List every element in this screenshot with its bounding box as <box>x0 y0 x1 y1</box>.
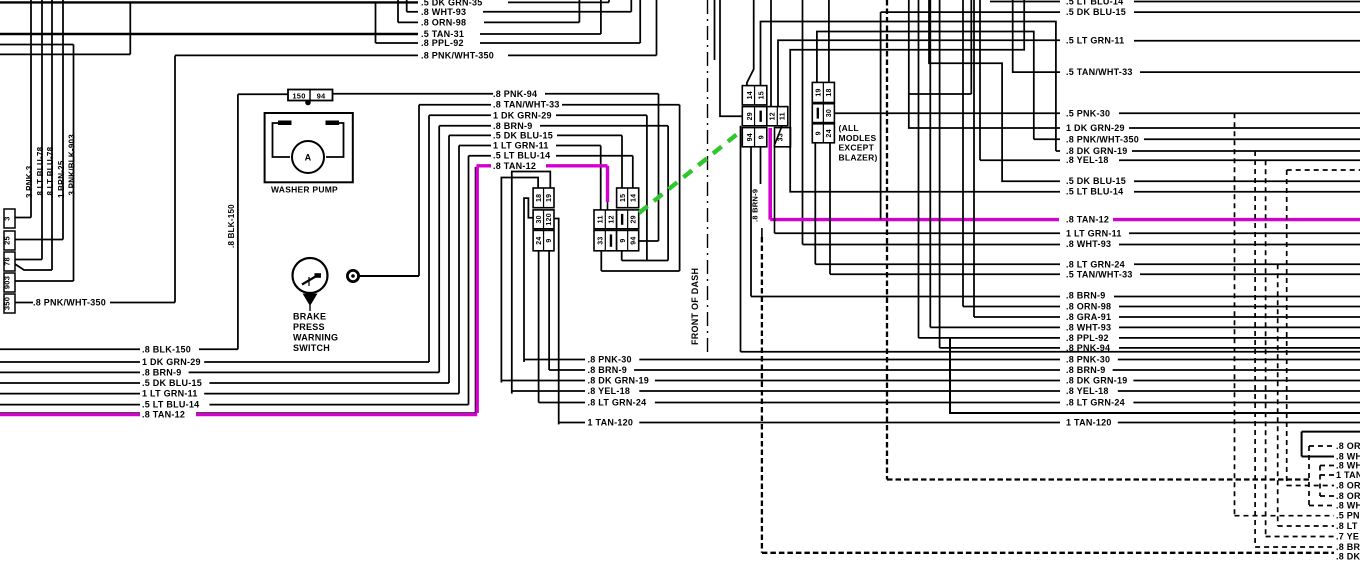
svg-text:9: 9 <box>759 135 766 139</box>
svg-text:29: 29 <box>747 112 754 120</box>
svg-text:MODLES: MODLES <box>839 133 877 143</box>
svg-text:.8 PNK/WHT-350: .8 PNK/WHT-350 <box>1066 134 1139 144</box>
svg-text:WASHER PUMP: WASHER PUMP <box>271 185 338 195</box>
svg-text:.8 BRN-9: .8 BRN-9 <box>493 121 533 131</box>
svg-text:BLAZER): BLAZER) <box>839 152 878 162</box>
svg-text:15: 15 <box>759 91 766 99</box>
svg-text:18: 18 <box>536 194 543 202</box>
svg-text:.8 YEL-18: .8 YEL-18 <box>588 386 631 396</box>
svg-text:.8 WH: .8 WH <box>1336 501 1360 511</box>
svg-text:.8 PNK-94: .8 PNK-94 <box>1066 343 1110 353</box>
svg-text:.5 DK BLU-15: .5 DK BLU-15 <box>1066 7 1126 17</box>
svg-text:.5 LT BLU-14: .5 LT BLU-14 <box>142 400 199 410</box>
svg-text:WARNING: WARNING <box>293 333 338 343</box>
svg-text:.8 PPL-92: .8 PPL-92 <box>421 38 464 48</box>
svg-text:.5 DK BLU-15: .5 DK BLU-15 <box>1066 176 1126 186</box>
svg-text:3: 3 <box>3 216 12 220</box>
svg-text:.8 BR: .8 BR <box>1336 542 1360 552</box>
svg-text:903: 903 <box>3 276 12 289</box>
svg-text:1 DK GRN-29: 1 DK GRN-29 <box>1066 123 1125 133</box>
svg-text:14: 14 <box>631 194 638 202</box>
svg-text:.8 PNK-30: .8 PNK-30 <box>1066 355 1110 365</box>
svg-text:.8 OR: .8 OR <box>1336 491 1360 501</box>
svg-text:12: 12 <box>608 215 615 223</box>
svg-text:9: 9 <box>816 131 823 135</box>
svg-text:.8 YEL-18: .8 YEL-18 <box>1066 386 1109 396</box>
svg-text:.5 TAN/WHT-33: .5 TAN/WHT-33 <box>1066 269 1133 279</box>
svg-text:9: 9 <box>620 239 627 243</box>
svg-text:.8 LT BLU-78: .8 LT BLU-78 <box>36 146 45 198</box>
svg-text:.8 BRN-9: .8 BRN-9 <box>142 367 182 377</box>
svg-text:24: 24 <box>536 236 543 244</box>
svg-text:1 TAN-120: 1 TAN-120 <box>1066 418 1112 428</box>
svg-text:BRAKE: BRAKE <box>293 312 326 322</box>
svg-text:.7 YE: .7 YE <box>1336 532 1359 542</box>
svg-text:25: 25 <box>3 236 12 245</box>
svg-text:.8 DK GRN-19: .8 DK GRN-19 <box>588 376 650 386</box>
svg-text:(ALL: (ALL <box>839 123 859 133</box>
svg-text:15: 15 <box>620 194 627 202</box>
svg-text:.8 BRN-9: .8 BRN-9 <box>588 365 628 375</box>
svg-text:18: 18 <box>826 88 833 96</box>
svg-text:.8 YEL-18: .8 YEL-18 <box>1066 155 1109 165</box>
svg-text:9: 9 <box>546 239 553 243</box>
svg-text:.5 PNK-30: .5 PNK-30 <box>1066 108 1110 118</box>
svg-text:.8 WHT-93: .8 WHT-93 <box>421 7 466 17</box>
svg-text:.5 DK BLU-15: .5 DK BLU-15 <box>493 130 553 140</box>
svg-text:.8 LT GRN-24: .8 LT GRN-24 <box>588 398 647 408</box>
svg-text:PRESS: PRESS <box>293 322 325 332</box>
svg-text:.8 OR: .8 OR <box>1336 441 1360 451</box>
svg-text:11: 11 <box>780 112 787 120</box>
svg-text:.8 WH: .8 WH <box>1336 461 1360 471</box>
svg-text:.8 PNK-30: .8 PNK-30 <box>588 355 632 365</box>
svg-text:.8 ORN-98: .8 ORN-98 <box>421 17 466 27</box>
svg-text:1 TAN: 1 TAN <box>1336 470 1360 480</box>
svg-text:.8 LT GRN-24: .8 LT GRN-24 <box>1066 259 1125 269</box>
svg-text:12: 12 <box>770 112 777 120</box>
svg-text:.8 TAN/WHT-33: .8 TAN/WHT-33 <box>493 100 560 110</box>
svg-text:78: 78 <box>3 257 12 266</box>
svg-text:.8 TAN-12: .8 TAN-12 <box>1066 215 1109 225</box>
svg-text:SWITCH: SWITCH <box>293 343 330 353</box>
svg-text:29: 29 <box>631 215 638 223</box>
svg-text:1 DK GRN-29: 1 DK GRN-29 <box>493 110 552 120</box>
svg-text:30: 30 <box>826 109 833 117</box>
svg-text:350: 350 <box>3 297 12 310</box>
svg-text:.8 BLK-150: .8 BLK-150 <box>142 344 191 354</box>
svg-text:.8 LT GRN-24: .8 LT GRN-24 <box>1066 398 1125 408</box>
svg-text:3 PNK-3: 3 PNK-3 <box>25 165 34 198</box>
svg-text:.5 PN: .5 PN <box>1336 511 1360 521</box>
svg-text:.5 LT BLU-14: .5 LT BLU-14 <box>1066 0 1123 7</box>
svg-text:33: 33 <box>598 236 605 244</box>
svg-text:1 DK GRN-29: 1 DK GRN-29 <box>142 357 201 367</box>
svg-text:1 LT GRN-11: 1 LT GRN-11 <box>1066 228 1122 238</box>
svg-text:1 TAN-120: 1 TAN-120 <box>588 418 634 428</box>
svg-text:.8 LT BLU-78: .8 LT BLU-78 <box>46 146 55 198</box>
svg-text:14: 14 <box>747 91 754 99</box>
svg-text:1 BRN-25: 1 BRN-25 <box>57 160 66 198</box>
svg-text:.8 TAN-12: .8 TAN-12 <box>493 161 536 171</box>
svg-text:120: 120 <box>546 213 553 225</box>
svg-text:94: 94 <box>631 236 638 244</box>
svg-text:150: 150 <box>292 92 305 101</box>
svg-text:.8 BRN-9: .8 BRN-9 <box>1066 365 1106 375</box>
svg-text:.8 TAN-12: .8 TAN-12 <box>142 410 185 420</box>
svg-text:.8 PNK/WHT-350: .8 PNK/WHT-350 <box>421 50 494 60</box>
svg-text:1 LT GRN-11: 1 LT GRN-11 <box>493 141 549 151</box>
svg-text:1 LT GRN-11: 1 LT GRN-11 <box>142 389 198 399</box>
svg-text:.8 GRA-91: .8 GRA-91 <box>1066 312 1111 322</box>
svg-text:.8 PNK/WHT-350: .8 PNK/WHT-350 <box>33 298 106 308</box>
svg-text:24: 24 <box>826 129 833 137</box>
svg-text:.5 LT GRN-11: .5 LT GRN-11 <box>1066 36 1124 46</box>
svg-text:FRONT OF DASH: FRONT OF DASH <box>690 268 700 345</box>
svg-text:.5 LT BLU-14: .5 LT BLU-14 <box>1066 187 1123 197</box>
svg-text:.5 LT BLU-14: .5 LT BLU-14 <box>493 151 550 161</box>
svg-text:.8 DK: .8 DK <box>1336 552 1360 562</box>
svg-text:.5 TAN/WHT-33: .5 TAN/WHT-33 <box>1066 67 1133 77</box>
svg-text:A: A <box>305 153 312 163</box>
svg-text:94: 94 <box>317 92 326 101</box>
svg-text:19: 19 <box>546 194 553 202</box>
svg-text:.3 PNK/BLK-903: .3 PNK/BLK-903 <box>68 134 77 198</box>
svg-text:.8 BLK-150: .8 BLK-150 <box>227 204 236 248</box>
svg-text:.5 DK BLU-15: .5 DK BLU-15 <box>142 378 202 388</box>
svg-text:.8 PPL-92: .8 PPL-92 <box>1066 333 1109 343</box>
svg-text:.8 LT: .8 LT <box>1336 521 1358 531</box>
svg-text:.8 DK GRN-19: .8 DK GRN-19 <box>1066 376 1128 386</box>
svg-text:.8 PNK-94: .8 PNK-94 <box>493 89 537 99</box>
svg-text:.8 OR: .8 OR <box>1336 481 1360 491</box>
svg-text:.8 WHT-93: .8 WHT-93 <box>1066 322 1111 332</box>
svg-text:.8 ORN-98: .8 ORN-98 <box>1066 302 1111 312</box>
svg-text:94: 94 <box>747 133 754 141</box>
svg-text:.8 BRN-9: .8 BRN-9 <box>1066 291 1106 301</box>
svg-text:.8 WHT-93: .8 WHT-93 <box>1066 239 1111 249</box>
svg-text:30: 30 <box>536 215 543 223</box>
svg-text:11: 11 <box>598 215 605 223</box>
svg-text:EXCEPT: EXCEPT <box>839 143 875 153</box>
svg-text:19: 19 <box>816 88 823 96</box>
